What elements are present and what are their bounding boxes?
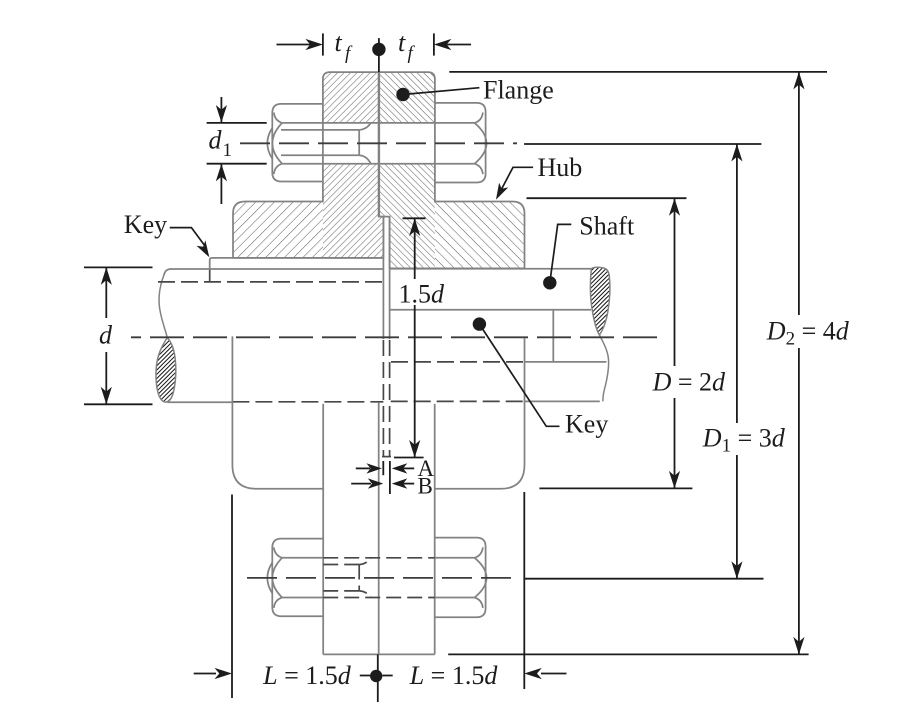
head chamfer arc middle bbox=[475, 123, 487, 164]
nut band lines bbox=[282, 122, 323, 124]
keyseat hidden line left bbox=[158, 281, 383, 283]
d1 extension lines bbox=[207, 122, 267, 124]
d1 arrows bbox=[216, 105, 227, 123]
svg-text:1: 1 bbox=[223, 140, 233, 161]
A row arrows bbox=[366, 463, 382, 473]
key right top edge bbox=[390, 309, 591, 311]
bolt thread minor lines bbox=[281, 129, 359, 131]
1.5d arrows bbox=[409, 219, 420, 237]
leader: Hub bbox=[496, 167, 533, 199]
leader: Flange bbox=[396, 88, 479, 102]
shaft left bottom edge bbox=[168, 401, 233, 403]
main shaft centerline bbox=[131, 336, 657, 338]
svg-text:1.5d: 1.5d bbox=[399, 280, 446, 309]
bottom center mark bbox=[377, 654, 379, 702]
bottom bolt: nut outline bbox=[267, 538, 486, 618]
svg-text:Key: Key bbox=[124, 210, 167, 239]
key right bottom hidden bbox=[391, 361, 525, 363]
svg-text:Key: Key bbox=[565, 409, 608, 438]
svg-text:D = 2d: D = 2d bbox=[652, 368, 726, 397]
thread end line bbox=[358, 130, 360, 155]
D=2d dimension line bbox=[674, 198, 676, 366]
tf left arrow line bbox=[277, 44, 319, 46]
D2=4d extension lines bbox=[449, 71, 827, 73]
shaft left break S-curve bbox=[159, 275, 167, 338]
top center mark bbox=[378, 38, 380, 72]
D2=4d dimension line bbox=[798, 72, 800, 315]
D=2d extension lines bbox=[527, 197, 687, 199]
d1 dimension line bbox=[220, 97, 222, 123]
shaft right top edge bbox=[390, 268, 592, 270]
tf ticks bbox=[322, 33, 324, 55]
shaft left break teardrop bbox=[156, 338, 176, 403]
L arrows bbox=[215, 668, 233, 679]
shaft right bottom hidden bbox=[391, 400, 525, 402]
shaft right break teardrop bbox=[590, 267, 610, 335]
svg-text:Flange: Flange bbox=[483, 76, 554, 105]
svg-text:t: t bbox=[335, 28, 343, 57]
bottom half: hub left face bbox=[232, 336, 323, 488]
A/B ticks bbox=[382, 461, 384, 475]
bolt head outline bbox=[435, 103, 486, 183]
bottom half: flange bottom edge bbox=[323, 653, 435, 655]
bottom half: hub right face bbox=[435, 338, 525, 488]
key left end hidden tick bbox=[209, 269, 211, 282]
A row arrow lines bbox=[356, 467, 370, 469]
D1=3d extension lines bbox=[524, 143, 761, 145]
leader: Key right bbox=[473, 317, 560, 426]
top bolt centerline bbox=[240, 142, 517, 144]
d dimension line bbox=[105, 267, 107, 318]
flange+hub left sectioned piece bbox=[323, 72, 384, 258]
nut chamfer arcs top/bottom bbox=[274, 113, 282, 123]
L right arrow tail bbox=[541, 673, 567, 675]
svg-text:d: d bbox=[209, 126, 223, 155]
L extension lines bbox=[231, 495, 233, 699]
flange+hub right sectioned piece bbox=[379, 72, 435, 268]
head band lines bbox=[435, 122, 475, 124]
svg-text:f: f bbox=[408, 43, 416, 64]
svg-text:D2 = 4d: D2 = 4d bbox=[766, 317, 850, 350]
joint faces touching line bbox=[378, 72, 380, 217]
svg-text:L = 1.5d: L = 1.5d bbox=[409, 661, 499, 690]
d extension lines bbox=[84, 266, 153, 268]
svg-text:B: B bbox=[418, 474, 433, 499]
svg-text:d: d bbox=[99, 321, 113, 350]
top bolt: nut outline bbox=[267, 103, 486, 183]
spigot face line A bbox=[382, 217, 384, 339]
head chamfer arcs top/bottom bbox=[475, 113, 483, 123]
bolt end cap bbox=[267, 128, 272, 159]
shaft bottom hidden under left hub bbox=[232, 401, 383, 403]
tf right arrow line bbox=[440, 44, 471, 46]
key right end bbox=[552, 310, 554, 362]
nut chamfer arc middle bbox=[272, 123, 282, 164]
bottom bolt hidden runout arcs bbox=[359, 558, 371, 565]
D arrows bbox=[669, 198, 680, 216]
1.5d ticks bbox=[403, 217, 426, 219]
leader dot bottom center bbox=[370, 670, 382, 682]
recess face line B bbox=[389, 217, 391, 339]
L left arrow tail bbox=[194, 673, 216, 675]
shaft right bottom visible bbox=[525, 400, 600, 402]
bottom bolt hidden hole lines bbox=[323, 558, 435, 598]
svg-text:Hub: Hub bbox=[538, 153, 583, 182]
bottom bolt centerline bbox=[247, 577, 516, 579]
shaft left top edge bbox=[164, 269, 384, 275]
svg-text:L = 1.5d: L = 1.5d bbox=[262, 661, 352, 690]
leader: Shaft bbox=[543, 224, 571, 289]
bottom half: flange right face bbox=[434, 404, 436, 655]
thread runout arcs bbox=[359, 123, 371, 130]
d arrows bbox=[101, 267, 112, 285]
bottom bolt head bbox=[435, 538, 486, 618]
bottom half: spigot hidden lines bbox=[382, 340, 384, 457]
bottom half: joint line bbox=[378, 402, 380, 654]
svg-text:f: f bbox=[345, 43, 353, 64]
L center stubs bbox=[360, 675, 370, 677]
B row arrows bbox=[368, 478, 384, 488]
1.5d dimension line bbox=[414, 219, 416, 280]
svg-text:Shaft: Shaft bbox=[579, 212, 635, 241]
leader: Key left bbox=[170, 228, 210, 258]
tf arrows bbox=[305, 39, 323, 50]
svg-text:D1 = 3d: D1 = 3d bbox=[702, 424, 786, 457]
text white backings bbox=[396, 280, 850, 452]
D2 arrows bbox=[793, 72, 804, 90]
key left (top) bbox=[210, 258, 384, 269]
bottom half: flange left face bbox=[322, 404, 324, 655]
shaft right break S-curve lower bbox=[599, 335, 608, 402]
arrowheads bbox=[101, 39, 805, 679]
D1 arrows bbox=[731, 144, 742, 162]
D1=3d dimension line bbox=[736, 144, 738, 423]
B row arrow lines bbox=[351, 483, 371, 485]
svg-text:t: t bbox=[398, 28, 406, 57]
leader dot top center bbox=[372, 43, 385, 56]
key right bottom visible bbox=[525, 361, 607, 363]
